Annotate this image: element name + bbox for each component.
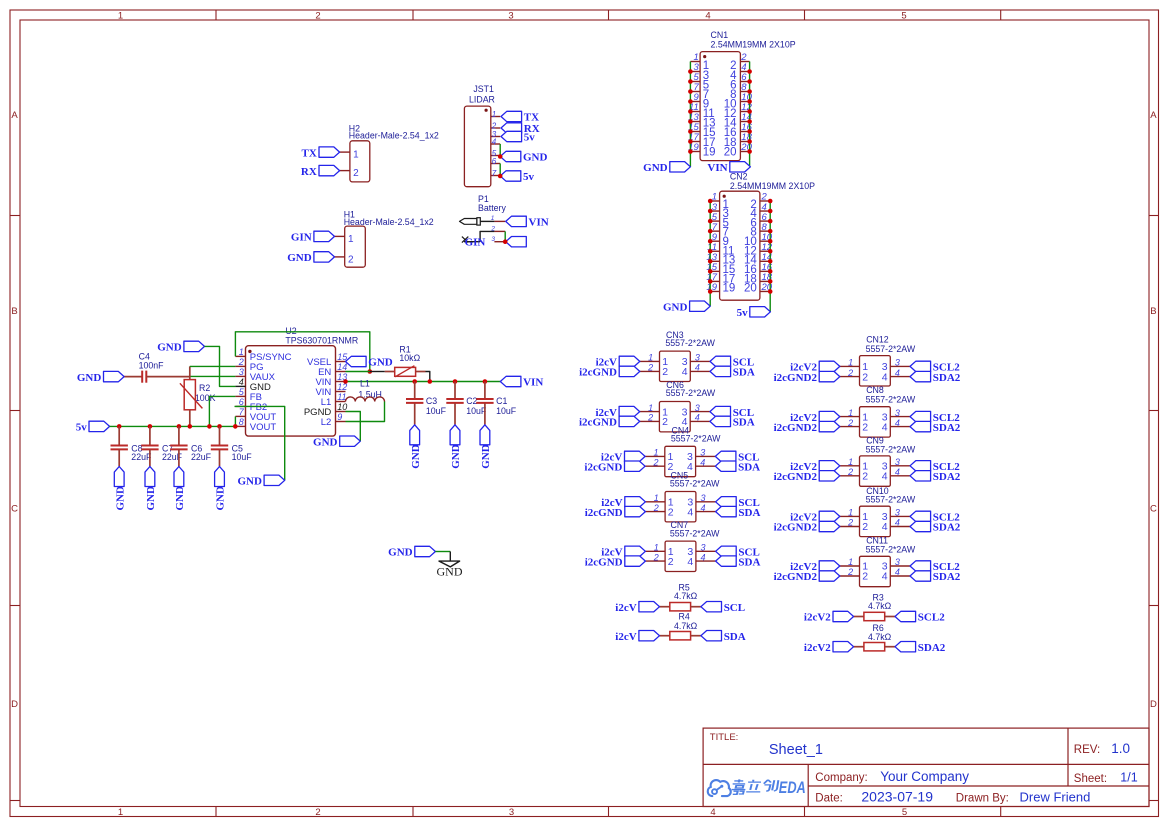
net flag SCL <box>716 497 760 509</box>
svg-text:TX: TX <box>524 112 539 124</box>
svg-text:6: 6 <box>492 157 497 166</box>
svg-text:R2: R2 <box>199 383 210 393</box>
svg-text:3: 3 <box>695 403 700 413</box>
net flag i2cGND2 <box>774 521 840 533</box>
net flag GND (PGND) <box>313 436 360 448</box>
svg-text:2.54MM19MM 2X10P: 2.54MM19MM 2X10P <box>711 39 796 49</box>
net flag i2cV2 <box>790 411 840 423</box>
svg-text:2023-07-19: 2023-07-19 <box>861 788 933 804</box>
connector CN12 <box>840 334 916 386</box>
svg-text:14: 14 <box>337 362 347 372</box>
svg-text:2: 2 <box>652 457 658 467</box>
net flag GIN <box>291 231 335 243</box>
wire 5v rail <box>110 425 236 427</box>
connector CN11 <box>840 536 916 587</box>
svg-text:5557-2*2AW: 5557-2*2AW <box>866 344 916 354</box>
net flag GND (C8) <box>114 467 126 511</box>
wire R1 to VIN rail (black) <box>426 372 430 382</box>
ground symbol GND <box>437 552 463 579</box>
svg-text:2: 2 <box>847 467 853 477</box>
net flag i2cGND <box>584 461 645 473</box>
wire VIN rail <box>346 381 501 383</box>
wire battery pin2 jog <box>480 231 494 241</box>
svg-text:C2: C2 <box>466 396 477 406</box>
svg-text:EDA: EDA <box>779 778 806 797</box>
net flag GND <box>500 151 547 163</box>
svg-text:1: 1 <box>239 347 244 357</box>
net flag VIN <box>707 162 750 174</box>
svg-text:GIN: GIN <box>465 236 486 248</box>
svg-text:SDA2: SDA2 <box>933 471 961 483</box>
svg-text:2: 2 <box>353 168 359 179</box>
svg-text:5v: 5v <box>523 171 535 183</box>
logo JLC EDA <box>708 778 806 797</box>
svg-text:3: 3 <box>895 457 900 467</box>
svg-text:2: 2 <box>668 556 674 568</box>
connector CN8 <box>840 385 916 437</box>
svg-text:GND: GND <box>237 476 262 488</box>
junction battery pin3 <box>503 239 508 244</box>
net flag GND <box>663 301 710 313</box>
svg-text:5557-2*2AW: 5557-2*2AW <box>866 394 916 404</box>
net flag i2cGND2 <box>774 421 840 433</box>
junctions 5v rail <box>117 424 238 429</box>
svg-text:TPS630701RNMR: TPS630701RNMR <box>285 335 358 345</box>
net flag SDA <box>710 416 755 428</box>
svg-text:D: D <box>11 699 18 710</box>
junctions CN2 <box>708 199 773 294</box>
net flag i2cGND2 <box>774 571 840 583</box>
svg-text:i2cGND2: i2cGND2 <box>774 571 818 583</box>
svg-text:1: 1 <box>353 150 359 161</box>
svg-text:SCL: SCL <box>724 602 745 614</box>
svg-text:Date:: Date: <box>815 792 843 804</box>
net flag i2cV <box>615 631 659 643</box>
svg-text:GND: GND <box>287 252 312 264</box>
wire C4 to VAUX <box>191 375 236 377</box>
svg-text:Sheet:: Sheet: <box>1074 773 1107 785</box>
svg-text:2: 2 <box>668 506 674 518</box>
svg-text:L2: L2 <box>321 417 332 428</box>
net flag SCL <box>716 546 760 558</box>
capacitor C3 <box>406 382 447 425</box>
svg-text:i2cGND2: i2cGND2 <box>774 522 818 534</box>
svg-text:9: 9 <box>337 412 342 422</box>
svg-text:5557-2*2AW: 5557-2*2AW <box>866 544 916 554</box>
svg-text:TX: TX <box>302 147 317 159</box>
svg-text:5557-2*2AW: 5557-2*2AW <box>670 528 720 538</box>
wire FB to 5v rail <box>209 396 235 426</box>
net flag SCL <box>710 406 754 418</box>
net flag SCL2 <box>910 461 960 473</box>
wire pin2-pin3 tie <box>504 231 506 241</box>
svg-text:C3: C3 <box>426 396 437 406</box>
svg-text:1: 1 <box>648 353 653 363</box>
svg-text:i2cGND: i2cGND <box>579 417 617 429</box>
svg-text:2: 2 <box>862 521 868 533</box>
net flag i2cV <box>601 451 645 463</box>
net flag GND (C5) <box>215 467 227 511</box>
svg-text:2: 2 <box>315 807 320 818</box>
svg-text:Company:: Company: <box>815 772 867 784</box>
svg-text:i2cV2: i2cV2 <box>804 642 831 654</box>
svg-text:1: 1 <box>654 543 659 553</box>
svg-text:i2cGND: i2cGND <box>579 367 617 379</box>
net flag i2cV <box>615 602 659 614</box>
svg-text:20: 20 <box>724 146 737 158</box>
net flag SDA <box>715 461 760 473</box>
inductor L1 <box>346 379 385 402</box>
svg-text:5557-2*2AW: 5557-2*2AW <box>671 434 721 444</box>
resistor R1 <box>385 345 426 377</box>
svg-text:5557-2*2AW: 5557-2*2AW <box>670 479 720 489</box>
svg-text:1.5uH: 1.5uH <box>358 390 381 400</box>
net flag GND <box>287 252 334 264</box>
connector H2 <box>340 123 439 182</box>
junction pin5 JST1 <box>498 154 503 159</box>
svg-text:Drew Friend: Drew Friend <box>1020 789 1091 804</box>
svg-text:2.54MM19MM 2X10P: 2.54MM19MM 2X10P <box>730 181 815 191</box>
svg-text:SDA: SDA <box>738 556 760 568</box>
svg-text:Header-Male-2.54_1x2: Header-Male-2.54_1x2 <box>344 217 434 227</box>
net flag GND (C7) <box>145 467 157 511</box>
svg-text:2: 2 <box>662 366 668 378</box>
net flag SDA <box>716 556 761 568</box>
svg-text:VOUT: VOUT <box>250 422 277 433</box>
net flag i2cGND <box>585 556 646 568</box>
net flag i2cV2 <box>804 642 854 654</box>
svg-text:SDA: SDA <box>738 507 760 519</box>
svg-text:GND: GND <box>215 486 227 511</box>
net flag 5v <box>737 307 771 319</box>
svg-text:1: 1 <box>118 10 123 21</box>
wire L1 to L2 <box>346 402 385 422</box>
capacitor C8 <box>111 426 152 466</box>
svg-text:4: 4 <box>895 467 900 477</box>
svg-text:6: 6 <box>239 397 244 407</box>
wire battery pin3 <box>464 241 480 243</box>
svg-text:GND: GND <box>450 444 462 469</box>
net flag GND (C4) <box>77 371 124 383</box>
svg-text:4: 4 <box>882 571 888 583</box>
svg-text:VIN: VIN <box>523 377 543 389</box>
svg-text:SDA: SDA <box>724 631 746 643</box>
svg-text:10uF: 10uF <box>232 452 253 462</box>
svg-text:4: 4 <box>682 366 688 378</box>
svg-text:2: 2 <box>847 518 853 528</box>
svg-text:8: 8 <box>239 417 244 427</box>
svg-text:GND: GND <box>174 486 186 511</box>
svg-text:GIN: GIN <box>291 232 312 244</box>
svg-text:i2cGND: i2cGND <box>584 461 622 473</box>
svg-text:GND: GND <box>114 486 126 511</box>
net flag 5v <box>500 171 534 183</box>
wire FB2 to GND <box>235 406 285 480</box>
svg-text:4: 4 <box>705 10 710 21</box>
net flag RX <box>301 165 340 177</box>
svg-text:4.7kΩ: 4.7kΩ <box>868 601 892 611</box>
net flag GND (to ground symbol) <box>388 546 435 558</box>
wire PGND to GND <box>346 412 361 442</box>
svg-text:5: 5 <box>901 10 906 21</box>
wire CN1 right rail <box>749 62 751 167</box>
svg-text:2: 2 <box>662 416 668 428</box>
svg-text:7: 7 <box>492 169 497 178</box>
svg-text:5557-2*2AW: 5557-2*2AW <box>866 494 916 504</box>
wire GND to pin4 <box>205 346 236 386</box>
svg-text:R4: R4 <box>679 612 690 622</box>
svg-text:4: 4 <box>239 377 244 387</box>
svg-text:19: 19 <box>703 146 716 158</box>
svg-text:3: 3 <box>701 493 706 503</box>
junction pin7 JST1 <box>498 174 503 179</box>
svg-text:1: 1 <box>648 403 653 413</box>
svg-text:5557-2*2AW: 5557-2*2AW <box>665 338 715 348</box>
connector CN2 <box>710 172 815 301</box>
connector CN10 <box>840 486 916 537</box>
capacitor C6 <box>170 426 211 466</box>
svg-text:GND: GND <box>77 372 102 384</box>
svg-text:SDA2: SDA2 <box>933 422 961 434</box>
svg-text:JST1: JST1 <box>473 84 494 94</box>
svg-text:GND: GND <box>643 162 668 174</box>
svg-text:22uF: 22uF <box>131 452 152 462</box>
net flag SCL2 <box>895 611 945 623</box>
net flag i2cGND <box>579 366 640 378</box>
svg-text:GND: GND <box>157 342 182 354</box>
connector CN4 <box>645 426 721 477</box>
svg-text:1: 1 <box>348 234 354 245</box>
connector CN3 <box>640 330 716 382</box>
svg-text:2: 2 <box>862 421 868 433</box>
svg-text:4: 4 <box>895 418 900 428</box>
svg-text:3: 3 <box>700 448 705 458</box>
svg-text:i2cGND2: i2cGND2 <box>774 372 818 384</box>
svg-text:5: 5 <box>902 807 907 818</box>
svg-text:5v: 5v <box>524 132 536 144</box>
wire CN1 left rail <box>689 62 691 167</box>
svg-text:TITLE:: TITLE: <box>710 732 739 743</box>
net flag GND (C3) <box>410 425 422 469</box>
svg-text:4: 4 <box>882 421 888 433</box>
net flag TX <box>302 147 340 159</box>
svg-text:SDA2: SDA2 <box>933 571 961 583</box>
svg-text:2: 2 <box>862 471 868 483</box>
svg-text:4: 4 <box>695 413 700 423</box>
svg-text:4.7kΩ: 4.7kΩ <box>674 591 698 601</box>
svg-text:4: 4 <box>895 567 900 577</box>
svg-text:i2cGND2: i2cGND2 <box>774 422 818 434</box>
net flag i2cGND2 <box>774 371 840 383</box>
svg-text:GND: GND <box>480 444 492 469</box>
svg-text:3: 3 <box>695 353 700 363</box>
net flag SCL <box>715 451 759 463</box>
capacitor C1 <box>476 382 517 425</box>
net flag i2cV2 <box>804 611 854 623</box>
svg-text:Drawn By:: Drawn By: <box>956 793 1009 805</box>
svg-text:2: 2 <box>862 371 868 383</box>
svg-text:4: 4 <box>895 518 900 528</box>
net flag i2cV <box>596 356 640 368</box>
net flag (battery minus) <box>506 237 527 247</box>
net flag SCL <box>710 356 754 368</box>
svg-text:SDA2: SDA2 <box>918 642 946 654</box>
svg-text:1: 1 <box>848 557 853 567</box>
svg-text:2: 2 <box>653 503 659 513</box>
connector CN6 <box>640 380 716 432</box>
net flag i2cGND <box>579 416 640 428</box>
svg-text:10uF: 10uF <box>496 406 517 416</box>
net flag SCL2 <box>910 361 960 373</box>
junction EN <box>368 369 373 374</box>
resistor R5 <box>660 582 701 611</box>
svg-text:4.7kΩ: 4.7kΩ <box>674 621 698 631</box>
svg-text:5557-2*2AW: 5557-2*2AW <box>666 388 716 398</box>
junctions VIN rail <box>343 379 487 384</box>
svg-text:1: 1 <box>118 807 123 818</box>
net flag RX <box>501 123 540 135</box>
svg-text:3: 3 <box>895 557 900 567</box>
svg-text:10: 10 <box>337 402 347 412</box>
capacitor C2 <box>446 382 487 425</box>
capacitor C5 <box>211 426 252 466</box>
svg-text:Your Company: Your Company <box>880 769 969 784</box>
net flag i2cV <box>601 497 645 509</box>
svg-text:2: 2 <box>847 418 853 428</box>
net flag i2cV2 <box>790 461 840 473</box>
net flag GND (C1) <box>480 425 492 469</box>
net flag 5v <box>501 131 535 143</box>
net flag i2cV <box>596 406 640 418</box>
svg-text:3: 3 <box>508 10 513 21</box>
svg-text:1: 1 <box>492 110 496 119</box>
svg-text:5v: 5v <box>76 422 88 434</box>
svg-text:1: 1 <box>654 493 659 503</box>
svg-text:GND: GND <box>145 486 157 511</box>
svg-text:4: 4 <box>687 506 693 518</box>
svg-text:VIN: VIN <box>529 217 549 229</box>
net flag SDA <box>716 506 761 518</box>
svg-text:A: A <box>11 110 18 121</box>
svg-text:4: 4 <box>700 457 705 467</box>
svg-text:1.0: 1.0 <box>1111 741 1130 756</box>
wire CN2 left rail <box>709 201 711 306</box>
net flag SCL2 <box>910 561 960 573</box>
svg-text:SDA: SDA <box>738 461 760 473</box>
resistor R3 <box>854 593 895 621</box>
title block <box>703 728 1149 806</box>
net flag GND (C2) <box>450 425 462 469</box>
svg-text:GND: GND <box>410 444 422 469</box>
connector CN9 <box>840 436 916 487</box>
svg-text:2: 2 <box>847 368 853 378</box>
svg-text:SDA: SDA <box>733 367 755 379</box>
svg-text:3: 3 <box>239 367 244 377</box>
svg-text:2: 2 <box>653 552 659 562</box>
resistor R6 <box>854 623 895 651</box>
svg-text:D: D <box>1150 699 1157 710</box>
wire pins 4-5 JST1 <box>499 144 501 157</box>
net flag SDA2 <box>910 371 961 383</box>
resistor R2 <box>180 366 216 426</box>
svg-text:5v: 5v <box>737 307 749 319</box>
svg-text:5557-2*2AW: 5557-2*2AW <box>866 445 916 455</box>
svg-text:4: 4 <box>701 503 706 513</box>
svg-text:C: C <box>11 504 18 515</box>
svg-text:4: 4 <box>695 363 700 373</box>
svg-text:i2cGND: i2cGND <box>585 556 623 568</box>
connector CN5 <box>645 471 720 522</box>
svg-text:20: 20 <box>744 283 757 295</box>
net flag GND (C6) <box>174 467 186 511</box>
svg-text:1: 1 <box>848 358 853 368</box>
svg-text:2: 2 <box>647 413 653 423</box>
svg-text:2: 2 <box>315 10 320 21</box>
svg-text:10kΩ: 10kΩ <box>399 353 420 363</box>
svg-text:C1: C1 <box>496 396 507 406</box>
net flag GND (VSEL) <box>346 356 393 368</box>
net flag SDA2 <box>910 571 961 583</box>
net flag TX <box>501 111 539 123</box>
connector CN1 <box>690 30 795 161</box>
svg-text:2: 2 <box>647 363 653 373</box>
svg-text:RX: RX <box>301 166 317 178</box>
svg-text:i2cGND: i2cGND <box>585 507 623 519</box>
svg-text:SCL2: SCL2 <box>918 612 945 624</box>
wire VOUT pins 7-8 tie <box>234 416 236 426</box>
svg-text:B: B <box>11 306 17 317</box>
svg-text:1: 1 <box>848 408 853 418</box>
svg-text:L1: L1 <box>360 379 370 389</box>
net flag GND (FB2) <box>237 475 284 487</box>
svg-text:1: 1 <box>653 448 658 458</box>
svg-text:B: B <box>1150 306 1156 317</box>
wire EN <box>346 371 370 373</box>
svg-text:4: 4 <box>701 552 706 562</box>
svg-text:VIN: VIN <box>707 162 727 174</box>
svg-text:REV:: REV: <box>1074 744 1100 756</box>
svg-text:3: 3 <box>895 358 900 368</box>
svg-text:GND: GND <box>388 547 413 559</box>
connector H1 <box>335 210 434 268</box>
svg-text:1: 1 <box>848 508 853 518</box>
net flag i2cV2 <box>790 361 840 373</box>
svg-text:4: 4 <box>882 371 888 383</box>
net flag VIN <box>500 376 543 388</box>
net flag i2cV2 <box>790 561 840 573</box>
svg-text:i2cV: i2cV <box>615 602 636 614</box>
connector CN7 <box>645 520 720 571</box>
svg-text:2: 2 <box>348 255 354 266</box>
svg-text:GND: GND <box>313 436 338 448</box>
svg-text:A: A <box>1150 110 1157 121</box>
net flag SDA <box>701 631 746 643</box>
net flag i2cGND2 <box>774 471 840 483</box>
net flag SCL <box>701 602 745 614</box>
wire pins 6-7 JST1 <box>499 164 501 177</box>
svg-text:LIDAR: LIDAR <box>469 95 495 105</box>
wire PS/SYNC to EN loop <box>235 332 369 372</box>
svg-text:2: 2 <box>862 571 868 583</box>
connector JST1 <box>464 84 500 187</box>
svg-text:Header-Male-2.54_1x2: Header-Male-2.54_1x2 <box>349 131 439 141</box>
svg-text:100K: 100K <box>195 393 216 403</box>
svg-text:i2cV2: i2cV2 <box>804 612 831 624</box>
wire CN2 right rail <box>769 201 771 312</box>
svg-text:10uF: 10uF <box>426 406 447 416</box>
svg-text:100nF: 100nF <box>139 361 165 371</box>
svg-text:C: C <box>1150 504 1157 515</box>
